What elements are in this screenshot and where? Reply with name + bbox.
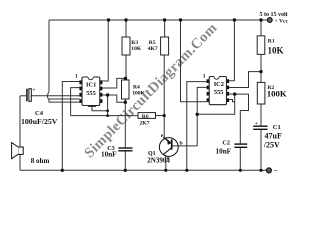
svg-text:C1: C1 — [273, 124, 281, 131]
svg-text:10K: 10K — [268, 45, 284, 55]
svg-text:1: 1 — [203, 73, 206, 79]
svg-text:10nF: 10nF — [216, 147, 232, 155]
svg-text:IC1: IC1 — [86, 82, 96, 89]
svg-text:+: + — [255, 121, 258, 127]
svg-text:5 to 15 volt: 5 to 15 volt — [260, 12, 288, 18]
svg-text:10K: 10K — [131, 46, 142, 52]
svg-text:100K: 100K — [267, 89, 287, 99]
svg-text:C2: C2 — [222, 139, 230, 146]
svg-text:+ Vcc: + Vcc — [275, 19, 289, 25]
svg-text:4K7: 4K7 — [148, 46, 158, 52]
svg-text:R6: R6 — [142, 114, 149, 120]
svg-text:100K: 100K — [132, 91, 145, 97]
svg-text:/25V: /25V — [263, 140, 280, 149]
svg-text:C4: C4 — [35, 110, 44, 117]
svg-text:−: − — [274, 167, 278, 175]
svg-text:555: 555 — [86, 90, 96, 97]
svg-text:R1: R1 — [268, 39, 275, 45]
svg-text:47uF: 47uF — [265, 131, 282, 140]
svg-text:+: + — [32, 88, 35, 94]
svg-text:10nF: 10nF — [101, 150, 117, 158]
svg-text:8 ohm: 8 ohm — [31, 157, 50, 165]
svg-text:2K7: 2K7 — [140, 121, 150, 127]
svg-text:100uF/25V: 100uF/25V — [21, 117, 58, 126]
svg-text:1: 1 — [75, 73, 78, 79]
svg-text:IC2: IC2 — [214, 81, 224, 88]
svg-text:b: b — [180, 141, 183, 147]
svg-text:555: 555 — [214, 89, 224, 96]
